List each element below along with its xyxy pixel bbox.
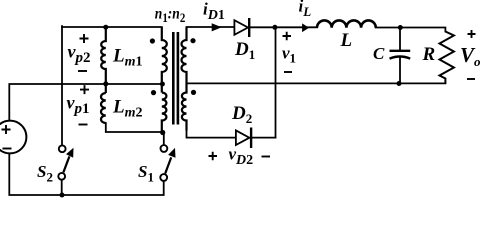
phase dot secondary upper	[190, 38, 195, 43]
S2 bottom contact	[58, 173, 65, 180]
junction node top of Lm1	[103, 25, 108, 30]
phase dot primary lower	[151, 90, 156, 95]
voltage source Vs	[0, 121, 26, 154]
svg-text:Lm1: Lm1	[112, 46, 143, 70]
current arrow iL	[302, 23, 309, 32]
svg-text:Lm2: Lm2	[112, 97, 143, 121]
junction node S2 bottom rail	[60, 193, 65, 198]
svg-text:iL: iL	[299, 0, 312, 19]
capacitor C top plate	[390, 50, 411, 52]
svg-text:vD2: vD2	[229, 145, 254, 169]
transformer primary winding lower	[162, 93, 167, 133]
diode D2 cathode bar	[250, 128, 252, 149]
svg-text:Vo: Vo	[460, 43, 480, 69]
wire middle-left rail with source top stub	[9, 84, 162, 121]
svg-text:L: L	[340, 30, 353, 51]
wire inductor L to top-right corner into R	[376, 28, 446, 32]
transformer secondary winding lower	[182, 83, 187, 130]
S1 bottom contact	[160, 174, 167, 181]
phase dot primary upper	[150, 38, 155, 43]
label vD2 minus	[262, 156, 271, 158]
label Vo plus	[468, 30, 476, 38]
wire Lm2 bottom to S1 junction	[106, 123, 162, 132]
label vD2 plus	[209, 152, 218, 160]
S2 blade	[63, 156, 69, 172]
S1 blade arrowhead	[168, 148, 175, 158]
junction node v1 top	[272, 25, 277, 30]
label vp1 minus	[79, 124, 88, 126]
S2 top contact	[59, 145, 66, 152]
diode D2	[236, 130, 250, 145]
diode D1	[234, 20, 248, 35]
inductor Lm1	[101, 27, 106, 93]
transformer secondary winding upper	[182, 27, 187, 83]
switch S2	[58, 145, 73, 179]
wire left vertical from top wire to S2	[61, 26, 63, 145]
wire output bottom rail	[187, 82, 446, 84]
label vp1 plus	[80, 85, 89, 94]
svg-text:vp2: vp2	[68, 42, 91, 67]
label Vo minus	[467, 78, 475, 80]
wire secondary top to D1 anode	[187, 26, 235, 28]
junction node C bottom	[397, 81, 402, 86]
S1 top contact	[161, 145, 168, 152]
label vp2 plus	[80, 34, 89, 43]
wire D2 cathode to v1 column	[252, 137, 275, 139]
wire v1 column D1 cathode to D2 cathode	[275, 27, 277, 137]
current arrow iD1	[212, 23, 222, 31]
capacitor C bottom stub	[399, 57, 401, 84]
source plus sign	[2, 125, 11, 134]
svg-text:v1: v1	[282, 44, 296, 66]
wire secondary lower to D2 anode	[187, 130, 236, 138]
capacitor C top stub	[399, 28, 401, 51]
svg-text:vp1: vp1	[67, 93, 90, 118]
svg-text:D1: D1	[234, 39, 255, 62]
inductor Lm2	[101, 93, 106, 123]
wire source bottom to bottom rail and bottom rail to S1	[9, 153, 163, 195]
transformer core	[173, 32, 178, 125]
wire D1 cathode to inductor L	[250, 26, 317, 28]
junction node primary centre tap	[160, 82, 165, 87]
wire S1 top stub	[163, 133, 165, 145]
S1 blade	[165, 157, 171, 173]
transformer primary winding upper	[162, 27, 167, 93]
svg-text:D2: D2	[231, 103, 252, 126]
resistor R zigzag	[440, 32, 454, 84]
junction node Lm1 bottom	[103, 81, 108, 86]
junction node L-C	[398, 25, 403, 30]
source minus sign	[3, 148, 12, 150]
svg-text:R: R	[422, 44, 436, 65]
svg-text:S2: S2	[37, 162, 53, 185]
wire top-left rail	[62, 26, 162, 28]
diode D1 cathode bar	[248, 18, 250, 37]
inductor L	[317, 20, 376, 27]
label v1 plus	[283, 32, 292, 40]
label vp2 minus	[78, 70, 87, 72]
svg-text:iD1: iD1	[203, 0, 225, 23]
capacitor C bottom plate (curved)	[390, 57, 411, 59]
svg-text:S1: S1	[138, 162, 154, 185]
switch S1	[160, 145, 175, 181]
svg-text:n1:n2: n1:n2	[155, 5, 186, 25]
label v1 minus	[284, 71, 292, 73]
wire S2 bottom stub	[61, 180, 63, 195]
phase dot secondary lower	[191, 90, 196, 95]
svg-text:C: C	[373, 44, 385, 63]
junction node S1 top	[160, 130, 165, 135]
S2 blade arrowhead	[66, 148, 74, 158]
